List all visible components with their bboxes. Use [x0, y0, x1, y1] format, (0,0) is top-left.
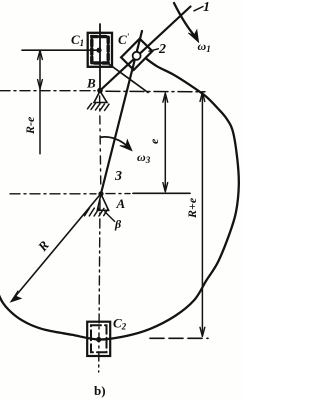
pivot B support triangle [94, 91, 107, 103]
slider block 2 at C' (rotated rect) [121, 39, 152, 70]
vertical centerline below A through C2 (dashed) [99, 200, 100, 372]
e arrow down [163, 183, 168, 192]
vertical centerline B to A (dashed) [100, 96, 101, 188]
pivot B dot [97, 88, 103, 94]
svg-text:b): b) [94, 383, 106, 398]
crank line 1: B through C' extended [100, 7, 191, 91]
pin circle at C' [133, 52, 141, 60]
dimension R+e vertical line [201, 93, 203, 336]
beta leader [105, 212, 115, 222]
e arrow up [163, 93, 168, 102]
omega3 rotation arc arrow [101, 137, 128, 147]
svg-text:1: 1 [203, 0, 210, 15]
slider block C2 inner [91, 325, 107, 352]
svg-text:β: β [114, 217, 122, 231]
bottom reference line (dashed) [150, 337, 208, 339]
vertical centerline top (through C1 to B) [99, 24, 101, 90]
svg-text:A: A [116, 196, 126, 211]
R+e arrow down [200, 327, 205, 336]
arrowhead up (to C1 line) [38, 50, 43, 59]
omega4 rotation arrow (crossing crank) [174, 3, 196, 37]
pivot A hatching [85, 208, 108, 216]
big circle radius R centered at A (hand-drawn arc) [0, 59, 239, 340]
horizontal dash-dot through B (right, to arc) [106, 90, 205, 93]
horizontal extension line at A level (right) [106, 193, 130, 195]
dimension e vertical line [164, 97, 166, 189]
lever 3: A through C' [101, 31, 142, 194]
C2 center dot [96, 337, 101, 342]
leader for label 2 [149, 49, 158, 51]
slider block C1 inner [92, 37, 108, 63]
svg-text:R-e: R-e [23, 116, 37, 135]
svg-text:e: e [147, 138, 161, 144]
pivot A dot [98, 191, 103, 196]
svg-text:3: 3 [114, 169, 122, 184]
svg-text:R+e: R+e [185, 197, 199, 219]
leader for label 1 [194, 7, 203, 11]
svg-text:B: B [86, 76, 96, 91]
pivot A support triangle [97, 194, 108, 210]
construction line from C1 block corner [110, 65, 149, 93]
slider block C2 (outer rect) [87, 322, 110, 356]
arrowhead down (to B centerline) [38, 80, 43, 89]
svg-text:2: 2 [158, 42, 166, 57]
pivot B hatching [88, 103, 110, 110]
slider block C1 (outer rect) [88, 33, 112, 67]
C1 center dot [96, 48, 101, 53]
horizontal dash-dot through A (left) [10, 193, 96, 195]
R+e arrow up [200, 92, 205, 101]
dimension R-e vertical line [39, 51, 41, 154]
horizontal dash-dot through B (left) [0, 90, 95, 92]
horizontal line at C1 level [22, 49, 99, 51]
radius R line with arrow [14, 195, 101, 299]
